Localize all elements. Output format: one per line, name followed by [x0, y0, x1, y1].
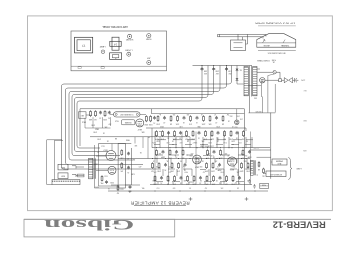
svg-text:PIN7: PIN7 — [184, 170, 188, 172]
jack wires — [271, 161, 272, 163]
speaker lead wire — [218, 33, 267, 35]
svg-text:.02: .02 — [163, 121, 165, 123]
filter capacitor C20B — [213, 67, 215, 68]
jack coupling cap — [78, 174, 85, 177]
svg-text:FUSE: FUSE — [272, 58, 276, 60]
resistor R10 470K — [156, 130, 158, 131]
rectifier diode D1 — [236, 69, 239, 71]
svg-text:Gibson: Gibson — [43, 216, 134, 232]
harness wire loop 2 — [66, 66, 227, 165]
svg-text:1M: 1M — [114, 137, 117, 139]
preamp tube V1A 6EU7 — [106, 151, 116, 161]
svg-text:.02: .02 — [241, 152, 243, 154]
svg-text:220K: 220K — [109, 181, 114, 183]
filter capacitor C20C — [226, 67, 228, 68]
fuse F1 — [273, 71, 276, 74]
svg-text:45V: 45V — [228, 72, 232, 74]
svg-text:15K: 15K — [236, 170, 240, 172]
svg-text:TERMINAL: TERMINAL — [281, 44, 290, 47]
svg-text:ANODE: ANODE — [263, 44, 270, 47]
svg-text:77: 77 — [82, 44, 86, 48]
svg-text:33: 33 — [247, 179, 249, 181]
svg-text:1W: 1W — [182, 165, 185, 167]
svg-text:6EU7: 6EU7 — [195, 165, 199, 167]
speaker connector box — [231, 40, 246, 51]
knob TONE — [147, 34, 151, 38]
resistor R21 100K — [169, 149, 171, 150]
Gibson logo box — [24, 219, 175, 237]
svg-text:470K: 470K — [92, 130, 97, 132]
svg-text:47K: 47K — [160, 138, 164, 140]
cathode cap C4 — [106, 180, 108, 181]
capacitor C17 .02 — [213, 150, 215, 151]
svg-text:470: 470 — [139, 165, 142, 167]
resistor R40 100K — [213, 175, 215, 176]
svg-text:.05: .05 — [140, 151, 142, 153]
svg-text:P-OUT: P-OUT — [254, 147, 259, 149]
lower bus wire — [108, 190, 268, 192]
interconnect wires — [159, 137, 161, 148]
svg-text:10K: 10K — [240, 118, 243, 120]
svg-text:6T4: 6T4 — [104, 174, 107, 176]
svg-text:LAMP: LAMP — [99, 45, 105, 48]
svg-text:6BQ5: 6BQ5 — [95, 128, 99, 130]
svg-text:2K: 2K — [199, 179, 202, 181]
svg-text:100K: 100K — [236, 115, 240, 117]
svg-text:.05: .05 — [164, 168, 166, 170]
svg-text:47K: 47K — [120, 169, 123, 171]
svg-text:PIA: PIA — [100, 182, 104, 185]
svg-text:.047: .047 — [108, 122, 111, 124]
preamp tube V2 6EU7 — [136, 119, 144, 127]
capacitor C21 25MF — [219, 163, 221, 164]
heater bus wire — [152, 147, 270, 149]
grid resistor R7 — [121, 162, 123, 163]
svg-text:25MF: 25MF — [217, 168, 221, 170]
harness inner wire — [80, 108, 244, 110]
capacitor C2 — [108, 111, 110, 112]
svg-text:.1: .1 — [175, 152, 176, 154]
svg-text:220K: 220K — [230, 140, 235, 142]
filter capacitor C20A — [201, 67, 203, 68]
capacitor C20 .02 — [184, 163, 186, 164]
capacitor C15 25MF — [162, 150, 164, 151]
svg-text:12K: 12K — [134, 144, 138, 146]
svg-text:2A: 2A — [273, 60, 275, 63]
svg-text:1M: 1M — [94, 118, 97, 120]
speaker title underline — [258, 25, 296, 27]
capacitor C14 .02 — [236, 131, 238, 132]
capacitor C1 — [100, 111, 102, 112]
svg-text:500K: 500K — [102, 118, 107, 120]
svg-text:.02: .02 — [103, 132, 105, 134]
svg-text:1M: 1M — [236, 186, 239, 188]
resistor R32 8200 — [241, 162, 243, 163]
power switch SW1 — [279, 79, 282, 82]
svg-text:RED: RED — [302, 119, 306, 121]
svg-text:TRIM: TRIM — [125, 138, 130, 140]
svg-text:45V: 45V — [203, 72, 207, 74]
resistor R41 1M — [226, 175, 228, 176]
cathode resistor R5 — [101, 175, 103, 176]
resistor R34 100K — [154, 175, 156, 176]
line capacitor — [293, 79, 295, 81]
capacitor C19 .05 — [165, 163, 167, 164]
coupling capacitor C3 — [154, 116, 156, 117]
grid stopper box — [79, 112, 87, 118]
svg-text:.02: .02 — [156, 165, 158, 167]
svg-text:25MF: 25MF — [161, 155, 165, 157]
svg-text:47K: 47K — [203, 138, 207, 140]
output tube V4 6BQ5 — [227, 157, 236, 166]
svg-text:100K: 100K — [176, 122, 180, 124]
svg-text:3.3K: 3.3K — [120, 156, 123, 158]
bottom components row — [117, 185, 119, 186]
svg-text:POWER TRANS: POWER TRANS — [256, 59, 269, 62]
capacitor C26 .05 — [239, 176, 241, 177]
svg-text:.02: .02 — [232, 125, 234, 127]
grid resistor R6 — [121, 149, 123, 150]
ground post — [110, 53, 122, 60]
svg-text:GND: GND — [196, 125, 200, 127]
svg-text:33K: 33K — [104, 126, 108, 128]
svg-text:5U4: 5U4 — [120, 187, 123, 189]
svg-text:0.5M: 0.5M — [223, 141, 227, 143]
harness wire loop 6 — [77, 66, 202, 149]
svg-text:6V2: 6V2 — [179, 141, 182, 143]
svg-text:SHLD: SHLD — [81, 121, 86, 123]
bus junction dots — [156, 147, 157, 148]
svg-text:1M: 1M — [151, 170, 154, 172]
junction dots — [157, 139, 158, 140]
resistor R39 47K — [206, 175, 208, 176]
capacitor C63 .02 — [216, 116, 218, 117]
capacitor C61 .05 — [183, 116, 185, 117]
resistor R60 470K — [157, 115, 159, 116]
svg-text:.05: .05 — [168, 179, 170, 181]
svg-text:2W: 2W — [116, 192, 119, 194]
svg-text:FUSE: FUSE — [262, 183, 266, 185]
resistor R33 470K — [247, 162, 249, 163]
preamp wiring — [86, 114, 91, 116]
svg-text:10M: 10M — [228, 70, 232, 72]
svg-text:33K: 33K — [220, 186, 224, 188]
svg-text:10″ W 2 VOICE(R) SPKR: 10″ W 2 VOICE(R) SPKR — [255, 22, 296, 24]
resistor R29 47K — [178, 162, 180, 163]
resistor R1 — [90, 110, 92, 111]
svg-text:MIC: MIC — [80, 114, 84, 116]
svg-text:2W: 2W — [204, 186, 207, 188]
resistor R23 470 — [207, 149, 209, 150]
svg-text:470K: 470K — [90, 124, 95, 126]
svg-text:68K: 68K — [209, 122, 212, 124]
reverb cable shield — [114, 112, 141, 117]
svg-text:12K: 12K — [158, 152, 162, 154]
resistor R11 47K — [162, 130, 164, 131]
bias bus wire — [150, 184, 252, 186]
resistor R28 100K — [171, 162, 173, 163]
resistor R27 470K — [158, 162, 160, 163]
rectifier tube V5 6CA4 — [260, 78, 265, 83]
ground bus wire — [118, 158, 250, 160]
resistor R13 1M — [186, 130, 188, 131]
volume pot — [104, 110, 106, 111]
plate resistor R3 — [145, 115, 147, 116]
AC plug P1 — [284, 78, 288, 83]
svg-text:6C4: 6C4 — [101, 145, 104, 147]
resistor R16 220K — [211, 130, 213, 131]
rectifier diode D2 — [236, 78, 239, 80]
svg-text:.02: .02 — [236, 136, 238, 138]
svg-text:B+: B+ — [159, 113, 161, 115]
svg-text:.02: .02 — [199, 181, 201, 183]
resistor R62 100K — [177, 115, 179, 116]
oscillator tube V6 — [235, 120, 239, 124]
svg-text:6V: 6V — [245, 140, 248, 142]
capacitor C10 .05 — [168, 131, 170, 132]
svg-text:MTG MOULDED BOX: MTG MOULDED BOX — [267, 51, 286, 53]
svg-text:LOVER: LOVER — [125, 48, 133, 50]
extension jack J4 — [266, 171, 286, 177]
svg-text:.05: .05 — [183, 121, 185, 123]
outer enclosure wall — [46, 140, 48, 185]
capacitor C62 .01 — [196, 116, 198, 117]
svg-text:6.3V: 6.3V — [209, 154, 213, 156]
svg-text:1M: 1M — [169, 122, 172, 124]
harness wire loop 1 — [62, 66, 232, 170]
svg-text:1500: 1500 — [211, 170, 215, 172]
svg-text:125V: 125V — [237, 141, 242, 143]
resistor R37 56K — [187, 175, 189, 176]
resistor R26 1M — [152, 162, 154, 163]
svg-text:33K: 33K — [201, 140, 205, 142]
cross mark M2 — [245, 197, 249, 201]
svg-text:220K: 220K — [172, 138, 177, 140]
pilot lamp — [101, 50, 105, 54]
svg-text:.02: .02 — [172, 140, 174, 142]
capacitor C23 .05 — [180, 176, 182, 177]
svg-text:45V: 45V — [215, 72, 219, 74]
svg-text:SIL: SIL — [239, 68, 242, 70]
svg-text:270K: 270K — [219, 170, 224, 172]
svg-text:470K: 470K — [156, 122, 160, 124]
svg-text:.05: .05 — [129, 190, 131, 192]
svg-text:10K: 10K — [241, 138, 245, 140]
svg-text:8Ω: 8Ω — [262, 174, 265, 176]
resistor R66 1M — [222, 115, 224, 116]
svg-text:EXTENSION SPK: EXTENSION SPK — [270, 173, 282, 175]
preamp tube V1B 6EU7 — [108, 166, 116, 174]
svg-text:100K: 100K — [190, 138, 195, 140]
svg-text:47K: 47K — [189, 122, 192, 124]
reverb unit box — [121, 120, 135, 125]
svg-text:68K: 68K — [243, 160, 247, 162]
svg-text:470K: 470K — [216, 125, 220, 127]
svg-text:4Ω: 4Ω — [257, 168, 260, 170]
capacitor C60 .02 — [164, 116, 166, 117]
resistor R35 1M — [167, 175, 169, 176]
svg-text:.05: .05 — [202, 160, 204, 162]
secondary taps — [258, 161, 260, 162]
resistor R20 1500 — [156, 149, 158, 150]
svg-text:.05: .05 — [180, 181, 182, 183]
output transformer T3 — [251, 160, 254, 175]
svg-text:AMP CONTROL PANEL: AMP CONTROL PANEL — [101, 25, 127, 28]
svg-text:.02: .02 — [107, 140, 109, 142]
svg-text:JIVI: JIVI — [147, 57, 151, 59]
svg-text:1.2K: 1.2K — [165, 141, 169, 143]
ground symbol G3 — [248, 179, 251, 183]
svg-text:INST: INST — [60, 166, 65, 168]
svg-text:680: 680 — [184, 179, 187, 181]
harness wire loop 5 — [75, 66, 209, 152]
resistor R38 220K — [193, 175, 195, 176]
svg-text:330: 330 — [225, 152, 228, 154]
svg-text:220K: 220K — [202, 122, 206, 124]
svg-text:.01: .01 — [217, 165, 219, 167]
resistor R65 68K — [209, 115, 211, 116]
B+ feed wire — [151, 128, 153, 148]
coupling cap C6 — [128, 166, 130, 167]
driver transformer T2 — [89, 158, 93, 179]
svg-text:220K: 220K — [209, 138, 214, 140]
resistor R15 47K — [205, 130, 207, 131]
svg-text:47: 47 — [214, 113, 216, 115]
lower left wires — [98, 160, 100, 186]
connector box risers — [237, 34, 239, 40]
svg-text:5%: 5% — [179, 160, 182, 162]
svg-text:1K: 1K — [152, 160, 155, 162]
svg-text:6.3MV: 6.3MV — [296, 167, 302, 169]
pilot lamp jewel bezel — [75, 37, 93, 53]
capacitor C24 .02 — [200, 176, 202, 177]
svg-text:BROWN: BROWN — [256, 110, 262, 112]
harness wire loop 4 — [72, 66, 214, 156]
power transformer T1 — [244, 67, 248, 96]
B+ bus wire — [193, 65, 253, 67]
svg-text:GND: GND — [226, 160, 230, 162]
svg-text:12K: 12K — [187, 113, 190, 115]
screen bus wire — [152, 113, 244, 115]
svg-text:.02: .02 — [216, 179, 218, 181]
svg-text:20M: 20M — [203, 70, 207, 72]
preamp bus wire — [90, 136, 190, 138]
plate resistor R4 — [150, 115, 152, 116]
svg-text:.047: .047 — [168, 170, 171, 172]
speaker frame — [257, 34, 296, 48]
svg-text:AC: AC — [226, 154, 229, 157]
output feed wire — [270, 113, 272, 179]
svg-text:GRN: GRN — [302, 149, 306, 151]
resistor R2 — [95, 110, 97, 111]
capacitor C12 .01 — [198, 131, 200, 132]
svg-text:470: 470 — [173, 183, 176, 185]
ground symbol G4 — [253, 184, 256, 188]
svg-text:.05: .05 — [127, 171, 129, 173]
svg-text:.05: .05 — [201, 113, 203, 115]
knob DEPTH — [127, 52, 131, 56]
svg-text:2W: 2W — [207, 152, 210, 154]
resistor R12 220K — [174, 130, 176, 131]
resistor R22 56K — [182, 149, 184, 150]
svg-text:100K: 100K — [151, 179, 156, 181]
svg-text:.02: .02 — [179, 136, 181, 138]
column wires — [154, 132, 156, 185]
enclosure left wall — [93, 145, 95, 188]
speaker caption rule — [258, 49, 296, 51]
transformer secondary wires — [257, 68, 260, 70]
resistor R18 470K — [230, 130, 232, 131]
capacitor C16 .01 — [176, 150, 178, 151]
svg-text:.02: .02 — [99, 116, 101, 118]
fuse holder F1 — [112, 37, 119, 50]
resistor R14 100K — [192, 130, 194, 131]
svg-text:5U4: 5U4 — [254, 96, 257, 98]
resistor R61 1M — [170, 115, 172, 116]
terminal strip box — [52, 180, 80, 185]
cross mark M1 — [189, 197, 193, 201]
svg-text:REVERB 12 AMPLIFIER: REVERB 12 AMPLIFIER — [130, 201, 189, 206]
knob FREQ — [147, 61, 151, 65]
phase inverter tube V3 — [193, 155, 202, 164]
svg-text:14: 14 — [114, 43, 117, 46]
svg-text:.01: .01 — [196, 121, 198, 123]
svg-text:B+: B+ — [174, 154, 176, 156]
resistor R36 470 — [174, 175, 176, 176]
svg-text:47K: 47K — [176, 170, 180, 172]
coupling cap C5 — [128, 152, 130, 153]
capacitor C25 .01 — [219, 176, 221, 177]
svg-text:350V: 350V — [94, 185, 99, 187]
svg-text:.01: .01 — [198, 136, 200, 138]
resistor R63 47K — [190, 115, 192, 116]
shield can outline — [118, 144, 125, 189]
harness wire loop 3 — [69, 66, 220, 161]
resistor R25 100 — [242, 149, 244, 150]
control panel outline — [71, 31, 167, 71]
preamp drop wires — [84, 118, 86, 128]
svg-text:.02: .02 — [215, 121, 217, 123]
svg-text:20M: 20M — [215, 70, 219, 72]
svg-text:RCA: RCA — [114, 119, 118, 122]
capacitor C11 .02 — [180, 131, 182, 132]
svg-text:470K: 470K — [245, 170, 250, 172]
jack tip contacts — [72, 166, 76, 169]
svg-text:12AX7: 12AX7 — [193, 141, 198, 144]
svg-text:TO REVERB UNIT: TO REVERB UNIT — [120, 113, 133, 115]
svg-text:JACK: JACK — [277, 162, 282, 165]
svg-text:BLK: BLK — [303, 89, 307, 91]
svg-text:REVERB: REVERB — [125, 121, 132, 123]
svg-text:270K: 270K — [96, 138, 101, 140]
svg-text:1M: 1M — [231, 179, 234, 181]
svg-text:INST: INST — [60, 175, 65, 177]
stub wires — [158, 139, 166, 141]
resistor R64 220K — [203, 115, 205, 116]
svg-text:1M: 1M — [221, 122, 224, 124]
speaker jack J3 — [272, 159, 287, 165]
jack enclosure wall — [54, 140, 56, 179]
capacitor C22 .01 — [161, 176, 163, 177]
svg-text:B+: B+ — [166, 160, 168, 162]
title strip rule — [24, 218, 331, 220]
svg-text:47K: 47K — [190, 152, 194, 154]
svg-text:0.02: 0.02 — [156, 186, 159, 188]
svg-text:470: 470 — [169, 165, 172, 167]
svg-text:10K: 10K — [214, 160, 218, 162]
panel mounting strip — [71, 65, 167, 67]
svg-text:5%: 5% — [188, 186, 191, 188]
